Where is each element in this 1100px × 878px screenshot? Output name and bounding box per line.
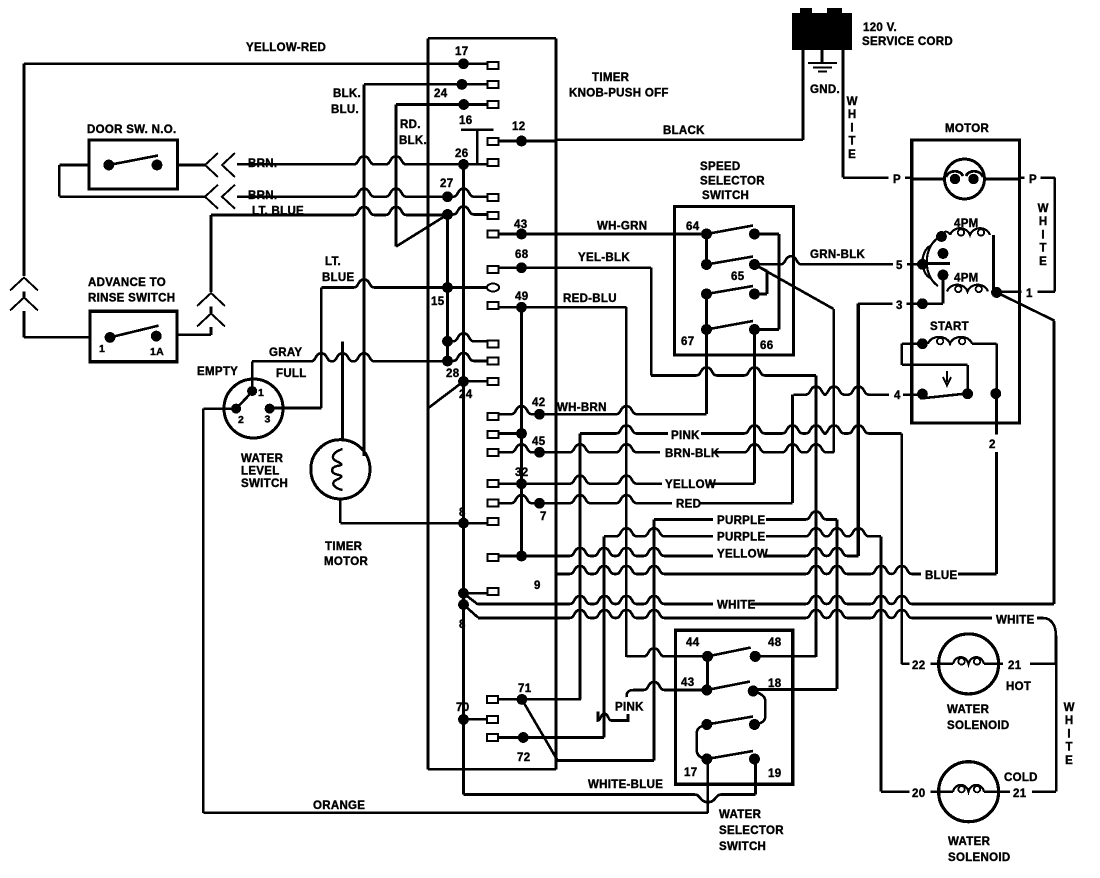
- svg-text:H: H: [1039, 216, 1047, 228]
- svg-text:P: P: [1029, 174, 1037, 186]
- svg-text:28: 28: [446, 368, 460, 380]
- svg-text:W: W: [1064, 702, 1075, 714]
- svg-text:SELECTOR: SELECTOR: [719, 825, 784, 837]
- svg-text:H: H: [1065, 715, 1073, 727]
- svg-text:I: I: [1041, 229, 1044, 241]
- svg-text:66: 66: [760, 340, 773, 352]
- svg-text:YELLOW: YELLOW: [717, 549, 768, 561]
- svg-text:BLU.: BLU.: [331, 104, 359, 116]
- svg-text:BLACK: BLACK: [663, 125, 705, 137]
- svg-text:H: H: [848, 109, 856, 121]
- svg-text:8: 8: [459, 619, 466, 631]
- svg-text:ADVANCE TO: ADVANCE TO: [88, 277, 166, 289]
- svg-text:MOTOR: MOTOR: [945, 123, 989, 135]
- svg-text:KNOB-PUSH OFF: KNOB-PUSH OFF: [569, 88, 669, 100]
- svg-text:YELLOW: YELLOW: [665, 479, 716, 491]
- svg-text:17: 17: [455, 46, 468, 58]
- svg-text:TIMER: TIMER: [592, 72, 630, 84]
- svg-text:3: 3: [896, 300, 903, 312]
- svg-text:RD.: RD.: [400, 119, 421, 131]
- svg-text:PINK: PINK: [671, 430, 700, 442]
- svg-text:GRAY: GRAY: [269, 347, 302, 359]
- svg-text:T: T: [1065, 742, 1072, 754]
- svg-text:22: 22: [912, 660, 925, 672]
- svg-text:32: 32: [515, 467, 528, 479]
- svg-text:43: 43: [514, 219, 527, 231]
- svg-text:RED: RED: [676, 499, 701, 511]
- svg-text:120 V.: 120 V.: [863, 22, 897, 34]
- svg-text:WATER: WATER: [241, 453, 284, 465]
- svg-text:SWITCH: SWITCH: [702, 190, 749, 202]
- svg-text:65: 65: [731, 271, 745, 283]
- svg-text:PURPLE: PURPLE: [717, 532, 765, 544]
- svg-text:ORANGE: ORANGE: [313, 800, 365, 812]
- svg-text:24: 24: [434, 88, 448, 100]
- svg-text:GND.: GND.: [810, 84, 840, 96]
- svg-text:21: 21: [1008, 660, 1022, 672]
- svg-text:EMPTY: EMPTY: [197, 366, 238, 378]
- svg-text:1: 1: [99, 343, 105, 355]
- svg-text:8: 8: [459, 507, 466, 519]
- svg-text:5: 5: [896, 260, 903, 272]
- svg-text:LT.: LT.: [325, 256, 341, 268]
- svg-text:1A: 1A: [150, 346, 164, 358]
- svg-text:BLUE: BLUE: [925, 570, 958, 582]
- svg-text:BLK.: BLK.: [399, 135, 427, 147]
- svg-text:26: 26: [455, 148, 468, 160]
- svg-text:19: 19: [768, 768, 781, 780]
- svg-text:P: P: [893, 174, 901, 186]
- svg-text:BRN-BLK: BRN-BLK: [665, 448, 720, 460]
- svg-text:DOOR SW. N.O.: DOOR SW. N.O.: [87, 124, 177, 136]
- svg-text:WATER: WATER: [947, 704, 990, 716]
- svg-text:9: 9: [534, 580, 541, 592]
- svg-text:HOT: HOT: [1006, 681, 1031, 693]
- svg-text:43: 43: [681, 677, 694, 689]
- svg-text:4PM: 4PM: [954, 273, 979, 285]
- svg-text:2: 2: [238, 414, 244, 426]
- svg-text:2: 2: [989, 439, 996, 451]
- svg-text:48: 48: [768, 637, 782, 649]
- svg-text:68: 68: [515, 249, 529, 261]
- svg-text:BLK.: BLK.: [333, 88, 361, 100]
- svg-text:E: E: [848, 149, 856, 161]
- svg-text:SOLENOID: SOLENOID: [948, 852, 1010, 864]
- svg-text:64: 64: [686, 221, 700, 233]
- svg-text:SWITCH: SWITCH: [241, 478, 288, 490]
- svg-text:70: 70: [456, 702, 469, 714]
- svg-text:27: 27: [440, 178, 453, 190]
- svg-text:WH-GRN: WH-GRN: [597, 221, 647, 233]
- svg-text:I: I: [1067, 728, 1070, 740]
- svg-text:E: E: [1065, 755, 1073, 767]
- svg-text:15: 15: [431, 296, 445, 308]
- svg-text:BLUE: BLUE: [322, 272, 355, 284]
- svg-text:MOTOR: MOTOR: [324, 556, 368, 568]
- svg-text:T: T: [848, 136, 855, 148]
- svg-text:20: 20: [912, 788, 925, 800]
- svg-text:START: START: [930, 321, 969, 333]
- svg-text:E: E: [1039, 256, 1047, 268]
- svg-text:T: T: [1039, 243, 1046, 255]
- svg-text:LEVEL: LEVEL: [241, 466, 280, 478]
- svg-text:SERVICE CORD: SERVICE CORD: [862, 36, 953, 48]
- svg-text:45: 45: [532, 436, 546, 448]
- svg-text:SELECTOR: SELECTOR: [700, 176, 765, 188]
- svg-text:SPEED: SPEED: [700, 161, 741, 173]
- svg-text:WATER: WATER: [719, 809, 762, 821]
- svg-text:7: 7: [540, 511, 547, 523]
- svg-text:W: W: [847, 96, 858, 108]
- svg-text:49: 49: [515, 291, 528, 303]
- svg-text:GRN-BLK: GRN-BLK: [810, 249, 866, 261]
- svg-text:FULL: FULL: [276, 368, 307, 380]
- svg-text:42: 42: [532, 397, 545, 409]
- svg-text:1: 1: [1026, 288, 1033, 300]
- svg-text:WH-BRN: WH-BRN: [557, 402, 607, 414]
- svg-text:YEL-BLK: YEL-BLK: [578, 252, 630, 264]
- svg-text:1: 1: [258, 387, 264, 399]
- svg-text:TIMER: TIMER: [325, 541, 363, 553]
- svg-text:12: 12: [512, 121, 525, 133]
- svg-text:72: 72: [517, 752, 530, 764]
- svg-text:COLD: COLD: [1004, 772, 1038, 784]
- svg-text:W: W: [1038, 203, 1049, 215]
- svg-text:PURPLE: PURPLE: [717, 515, 765, 527]
- svg-text:WHITE-BLUE: WHITE-BLUE: [588, 779, 663, 791]
- svg-text:RINSE SWITCH: RINSE SWITCH: [88, 293, 175, 305]
- svg-text:16: 16: [459, 115, 472, 127]
- svg-text:44: 44: [686, 637, 700, 649]
- svg-text:SOLENOID: SOLENOID: [947, 720, 1009, 732]
- svg-text:3: 3: [265, 414, 271, 426]
- svg-text:I: I: [850, 122, 853, 134]
- svg-text:17: 17: [684, 767, 697, 779]
- svg-text:WHITE: WHITE: [996, 615, 1035, 627]
- svg-text:24: 24: [459, 389, 473, 401]
- svg-text:SWITCH: SWITCH: [719, 841, 766, 853]
- svg-text:71: 71: [518, 683, 532, 695]
- svg-text:PINK: PINK: [615, 702, 644, 714]
- svg-text:RED-BLU: RED-BLU: [563, 293, 617, 305]
- svg-text:21: 21: [1013, 788, 1027, 800]
- svg-text:YELLOW-RED: YELLOW-RED: [246, 42, 326, 54]
- svg-text:WATER: WATER: [948, 836, 991, 848]
- svg-text:WHITE: WHITE: [717, 600, 756, 612]
- svg-text:67: 67: [681, 336, 694, 348]
- svg-text:4: 4: [894, 390, 901, 402]
